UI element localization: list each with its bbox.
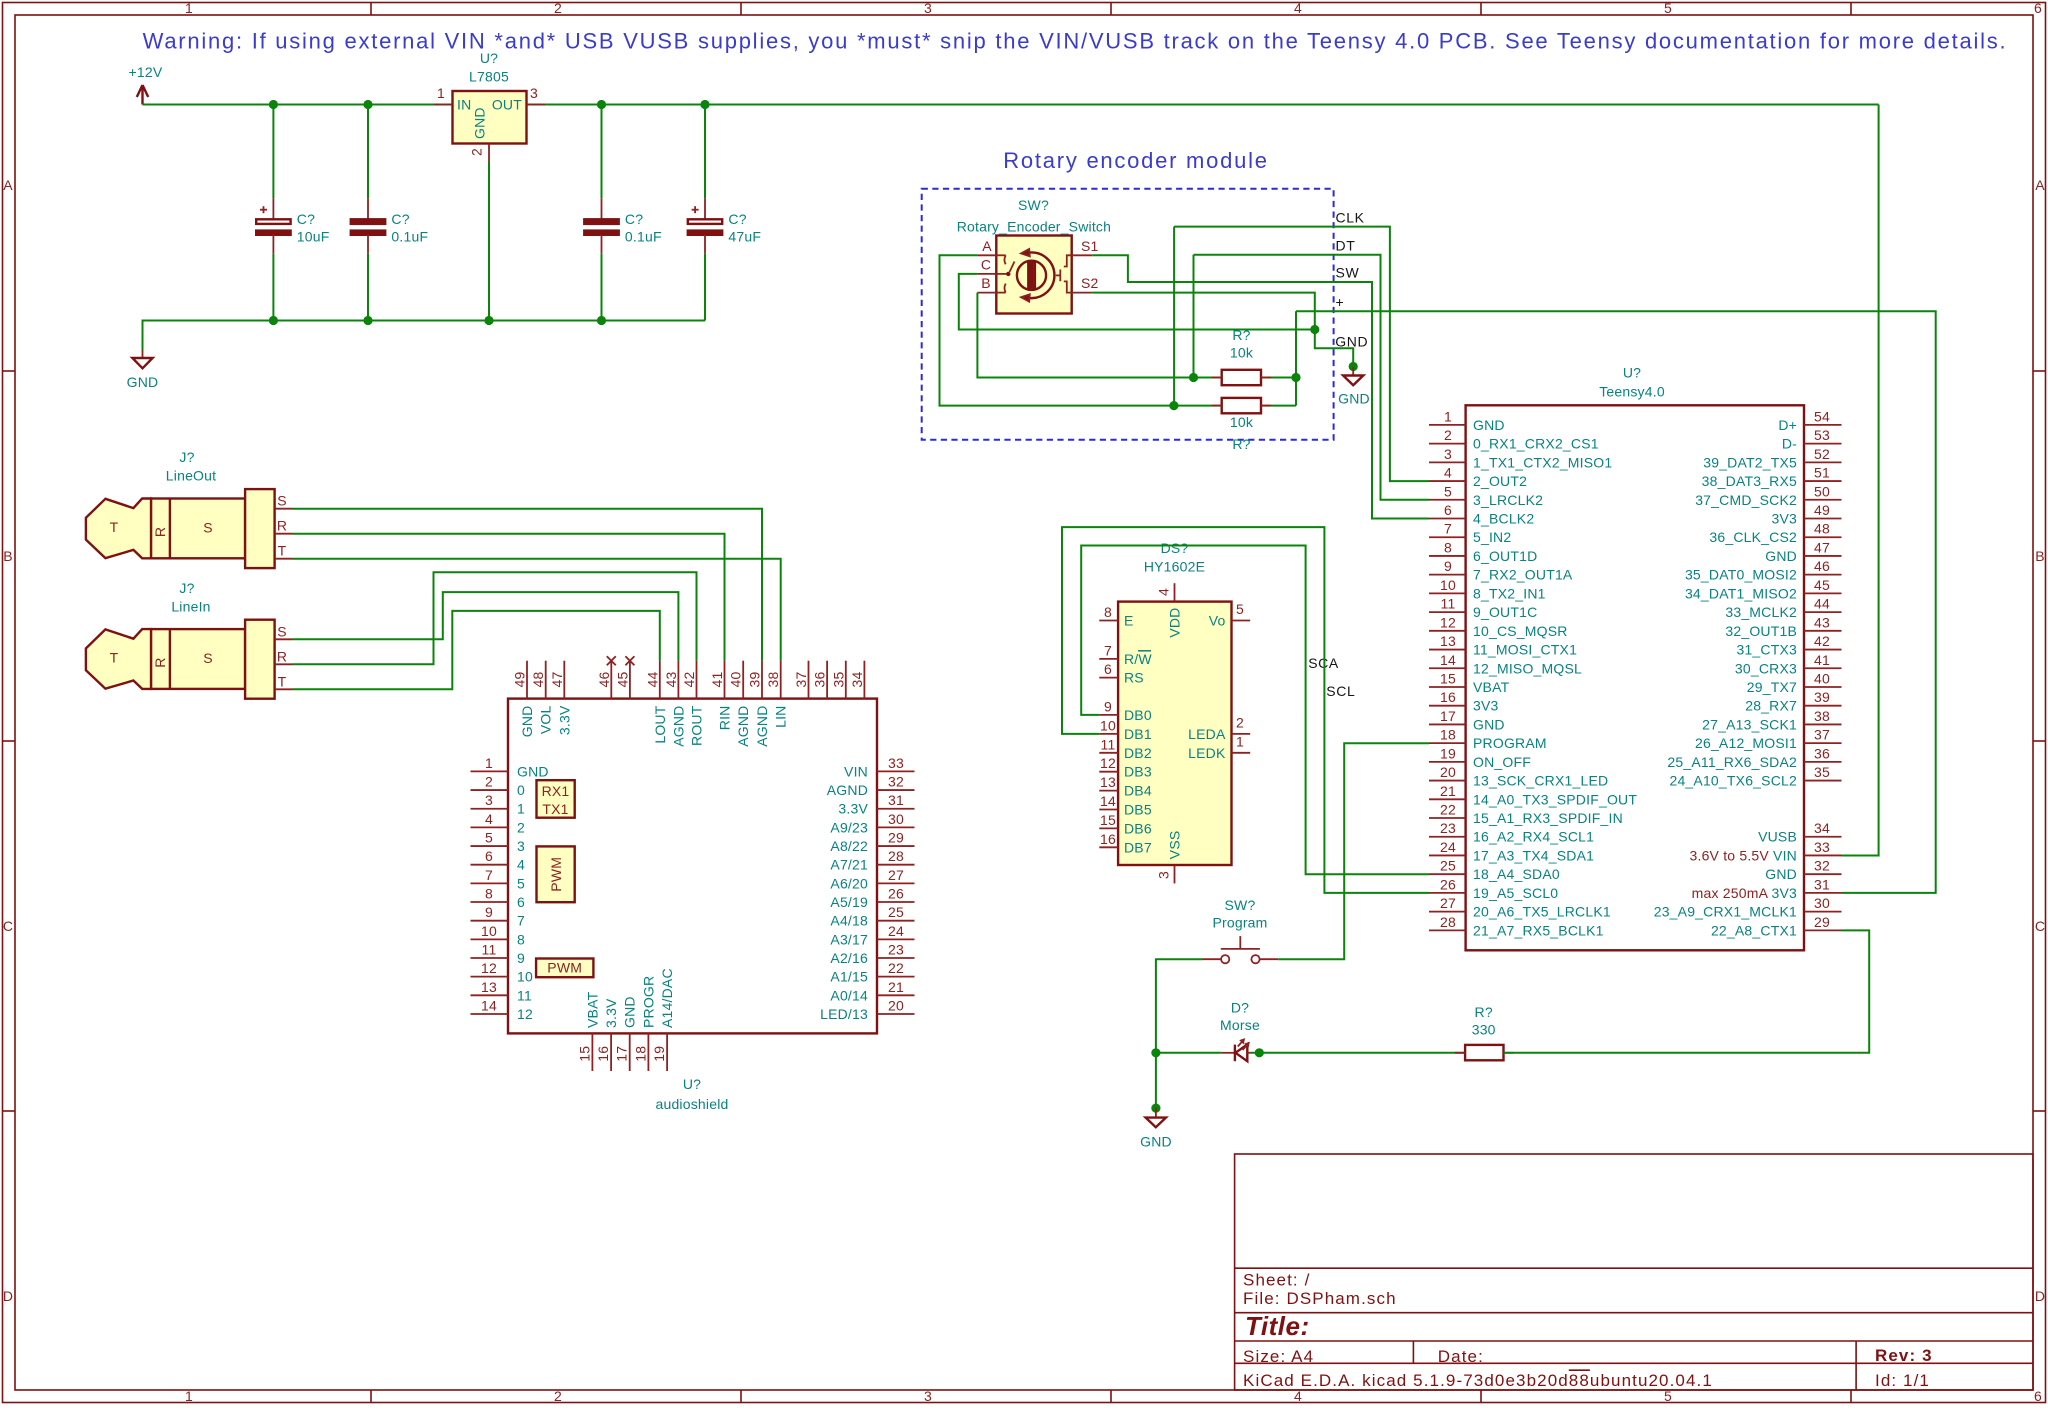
svg-text:2: 2 [485,774,493,790]
svg-text:12: 12 [1100,755,1116,771]
svg-text:16: 16 [1100,831,1116,847]
pin 4 2 of audioshield [471,826,509,828]
svg-text:GND: GND [1473,716,1505,732]
pin 1 GND of Teensy4.0 [1429,424,1466,426]
svg-text:DB4: DB4 [1124,783,1152,799]
svg-text:3.3V: 3.3V [556,705,572,735]
svg-text:DB2: DB2 [1124,745,1152,761]
pin 47 GND of Teensy4.0 [1804,555,1842,557]
title block frame [1235,1154,2033,1390]
svg-text:41: 41 [1814,652,1830,668]
svg-text:4: 4 [485,811,493,827]
pin A of rotary encoder [977,254,996,256]
svg-text:17: 17 [1440,708,1456,724]
svg-text:+: + [1336,294,1345,310]
svg-text:A14/DAC: A14/DAC [659,968,675,1028]
svg-text:8: 8 [517,931,525,947]
svg-text:50: 50 [1814,483,1830,499]
svg-text:22_A8_CTX1: 22_A8_CTX1 [1711,922,1797,938]
wire LineOut S to audioshield pin 39 [293,509,763,661]
svg-text:9: 9 [485,904,493,920]
pin 11 9 of audioshield [471,957,509,959]
svg-text:21: 21 [1440,783,1456,799]
junction dots on +12V rail [269,100,278,109]
svg-text:T: T [278,543,287,559]
pin 20 13_SCK_CRX1_LED of Teensy4.0 [1429,780,1466,782]
pin R of J? LineOut [275,533,293,535]
svg-text:Rev: 3: Rev: 3 [1875,1346,1933,1365]
svg-text:U?: U? [683,1076,701,1092]
svg-text:1: 1 [437,85,445,101]
svg-text:51: 51 [1814,465,1830,481]
no-connect x pin 45 [625,656,634,665]
pin 38 27_A13_SCK1 of Teensy4.0 [1804,723,1842,725]
pin 3 VSS of HY1602E [1174,865,1176,883]
resistor R? 330 [1455,1004,1514,1060]
wire switch to GND branch [1156,959,1203,1053]
svg-text:20: 20 [888,997,904,1013]
pin 41 30_CRX3 of Teensy4.0 [1804,667,1842,669]
pin 36 25_A11_RX6_SDA2 of Teensy4.0 [1804,761,1842,763]
svg-text:23_A9_CRX1_MCLK1: 23_A9_CRX1_MCLK1 [1654,904,1797,920]
svg-text:GND: GND [1338,391,1370,407]
svg-text:7_RX2_OUT1A: 7_RX2_OUT1A [1473,567,1573,583]
pin 33 VIN of audioshield [877,770,915,772]
svg-text:Warning: If using external VIN: Warning: If using external VIN *and* USB… [143,29,2008,54]
svg-text:S: S [277,493,287,509]
pin 47 3.3V top of audioshield [563,661,565,699]
svg-text:3: 3 [1156,871,1172,879]
svg-text:31_CTX3: 31_CTX3 [1736,642,1797,658]
wire DB0 to SCA to Teensy pin 25 [1081,546,1429,875]
pin 16 3V3 of Teensy4.0 [1429,705,1466,707]
pin 28 A7/21 of audioshield [877,864,915,866]
pin 32 AGND of audioshield [877,789,915,791]
svg-text:45: 45 [1814,577,1830,593]
pin 30 A9/23 of audioshield [877,826,915,828]
svg-text:KiCad E.D.A. kicad 5.1.9-73d0: KiCad E.D.A. kicad 5.1.9-73d0e3b20d88ubu… [1243,1371,1713,1390]
wire L7805 GND to rail [488,162,490,321]
svg-text:D+: D+ [1778,417,1797,433]
pin 13 DB4 of HY1602E [1099,790,1118,792]
svg-text:RS: RS [1124,670,1144,686]
svg-text:10: 10 [517,969,533,985]
ground symbol morse branch [1151,1104,1160,1113]
svg-text:11: 11 [517,987,532,1003]
svg-text:3: 3 [530,85,538,101]
svg-text:VSS: VSS [1167,831,1183,860]
pin 9 7_RX2_OUT1A of Teensy4.0 [1429,574,1466,576]
svg-text:VIN: VIN [844,763,868,779]
pin 17 GND bottom of audioshield [629,1033,631,1071]
svg-text:DB7: DB7 [1124,839,1152,855]
pin 27 20_A6_TX5_LRCLK1 of Teensy4.0 [1429,911,1466,913]
pin 36 top of audioshield [826,661,828,699]
wire CLK riser [1173,227,1175,406]
title block row lines [1235,1267,2033,1269]
pin 3 1 of audioshield [471,808,509,810]
pin 2 0_RX1_CRX2_CS1 of Teensy4.0 [1429,443,1466,445]
svg-text:32: 32 [1814,858,1830,874]
svg-text:J?: J? [179,580,194,596]
overline on 88 [1569,1369,1590,1371]
svg-text:DB0: DB0 [1124,707,1152,723]
svg-text:C: C [2035,918,2045,934]
svg-text:GND: GND [622,996,638,1028]
svg-text:VUSB: VUSB [1758,829,1797,845]
ic U? audioshield body [508,699,877,1034]
capacitor C? 0.1uF [584,105,661,321]
svg-text:29: 29 [1814,914,1830,930]
svg-text:36: 36 [1814,745,1830,761]
svg-text:RIN: RIN [717,706,733,731]
svg-text:28: 28 [888,848,904,864]
pin 23 A2/16 of audioshield [877,957,915,959]
svg-text:14: 14 [481,997,497,1013]
svg-text:47: 47 [549,672,565,688]
svg-text:4_BCLK2: 4_BCLK2 [1473,511,1534,527]
pin 1 LEDK of HY1602E [1232,752,1251,754]
svg-text:A8/22: A8/22 [830,838,868,854]
rotary encoder switch SW? Rotary_Encoder_Switch [957,197,1111,314]
svg-text:9: 9 [1444,558,1452,574]
pin 6 4 of audioshield [471,864,509,866]
pin 17 GND of Teensy4.0 [1429,723,1466,725]
wire resistor 330 to Teensy pin 29 [1504,930,1870,1052]
svg-text:31: 31 [888,792,904,808]
svg-text:2: 2 [517,819,525,835]
svg-text:18: 18 [632,1046,648,1062]
svg-text:10_CS_MQSR: 10_CS_MQSR [1473,623,1568,639]
svg-text:25: 25 [888,904,904,920]
pin 46 35_DAT0_MOSI2 of Teensy4.0 [1804,574,1842,576]
svg-text:13: 13 [1440,633,1456,649]
wire CLK to Teensy pin 4 [1174,227,1429,482]
capacitor C? 10uF [256,105,329,321]
svg-text:9_OUT1C: 9_OUT1C [1473,604,1537,620]
svg-text:48: 48 [1814,521,1830,537]
pin 9 DB0 of HY1602E [1099,714,1118,716]
wire LineOut R to audioshield pin 41 [293,534,725,661]
svg-text:6: 6 [1444,502,1452,518]
svg-text:DB1: DB1 [1124,726,1152,742]
pin 45 34_DAT1_MISO2 of Teensy4.0 [1804,592,1842,594]
svg-text:37_CMD_SCK2: 37_CMD_SCK2 [1695,492,1797,508]
svg-text:LineOut: LineOut [166,468,216,484]
svg-text:5: 5 [485,830,493,846]
pin 32 GND of Teensy4.0 [1804,873,1842,875]
svg-text:GND: GND [1765,866,1797,882]
svg-text:U?: U? [480,50,498,66]
svg-text:53: 53 [1814,427,1830,443]
svg-text:2_OUT2: 2_OUT2 [1473,473,1527,489]
svg-text:8_TX2_IN1: 8_TX2_IN1 [1473,585,1546,601]
pin 38 LIN top of audioshield [780,661,782,699]
svg-text:16_A2_RX4_SCL1: 16_A2_RX4_SCL1 [1473,829,1594,845]
svg-text:DS?: DS? [1161,540,1189,556]
svg-text:330: 330 [1472,1022,1496,1038]
pin 48 VOL top of audioshield [545,661,547,699]
svg-text:9: 9 [517,950,525,966]
pin 51 38_DAT3_RX5 of Teensy4.0 [1804,480,1842,482]
svg-text:27_A13_SCK1: 27_A13_SCK1 [1702,716,1797,732]
svg-text:IN: IN [457,97,471,113]
connector J? LineOut jack [86,449,275,568]
pin 2 of program switch [1259,958,1278,960]
wire pullup common to + rail [1295,311,1297,405]
svg-text:13: 13 [1100,774,1116,790]
svg-text:4: 4 [517,857,525,873]
svg-text:14: 14 [1440,652,1456,668]
svg-text:B: B [2035,548,2045,564]
pin 5 3 of audioshield [471,845,509,847]
dashed outline rotary encoder module [922,189,1334,440]
pin 24 17_A3_TX4_SDA1 of Teensy4.0 [1429,854,1466,856]
svg-text:8: 8 [1104,604,1112,620]
svg-text:15_A1_RX3_SPDIF_IN: 15_A1_RX3_SPDIF_IN [1473,810,1623,826]
svg-text:File: DSPham.sch: File: DSPham.sch [1243,1289,1397,1308]
wire +12V top rail [143,104,1879,106]
svg-text:S2: S2 [1081,275,1099,291]
wire GND to LED anode [1155,1053,1157,1108]
svg-text:VBAT: VBAT [584,991,600,1028]
svg-text:12: 12 [517,1006,533,1022]
svg-text:A: A [2035,177,2045,193]
svg-text:D: D [2035,1288,2045,1304]
svg-text:41: 41 [709,672,725,688]
svg-text:4: 4 [1156,588,1172,596]
svg-text:OUT: OUT [492,97,522,113]
svg-text:1: 1 [485,755,493,771]
wire encoder GND tail [1315,330,1353,368]
pwm box RX1 TX1 [537,780,575,818]
svg-text:38: 38 [765,672,781,688]
svg-text:PROGRAM: PROGRAM [1473,735,1547,751]
svg-text:2: 2 [554,1388,562,1404]
svg-text:Teensy4.0: Teensy4.0 [1599,384,1665,400]
svg-text:7: 7 [1444,521,1452,537]
pin 8 6_OUT1D of Teensy4.0 [1429,555,1466,557]
svg-text:A: A [982,238,992,254]
svg-text:7: 7 [1104,642,1112,658]
pin 5 3_LRCLK2 of Teensy4.0 [1429,499,1466,501]
svg-text:3.3V: 3.3V [603,998,619,1028]
svg-text:D-: D- [1782,436,1797,452]
svg-text:3.3V: 3.3V [838,801,868,817]
power flag +12V [141,88,143,105]
svg-text:C?: C? [297,211,315,227]
resistor R? 10k upper [1194,370,1297,385]
svg-text:GND: GND [517,763,549,779]
svg-text:R: R [152,527,168,537]
svg-text:22: 22 [888,960,904,976]
pin 15 VBAT of Teensy4.0 [1429,686,1466,688]
pin 18 PROGR bottom of audioshield [647,1033,649,1071]
pin 26 A5/19 of audioshield [877,901,915,903]
pin 12 10_CS_MQSR of Teensy4.0 [1429,630,1466,632]
svg-text:14_A0_TX3_SPDIF_OUT: 14_A0_TX3_SPDIF_OUT [1473,791,1637,807]
svg-text:S: S [277,623,287,639]
svg-text:5: 5 [1444,483,1452,499]
svg-text:A5/19: A5/19 [830,894,868,910]
wire VIN drop to Teensy pin 33 [1842,105,1879,856]
pin 40 29_TX7 of Teensy4.0 [1804,686,1842,688]
svg-text:35: 35 [830,672,846,688]
svg-text:2: 2 [554,0,562,16]
svg-text:D?: D? [1231,1000,1249,1016]
svg-text:44: 44 [644,672,660,688]
svg-text:34: 34 [849,672,865,688]
pin 19 A14/DAC bottom of audioshield [666,1033,668,1071]
svg-text:46: 46 [1814,558,1830,574]
pin T of J? LineOut [275,558,293,560]
svg-text:LEDA: LEDA [1188,726,1226,742]
svg-text:GND: GND [1335,334,1368,350]
pin 3 1_TX1_CTX2_MISO1 of Teensy4.0 [1429,461,1466,463]
pin 21 A0/14 of audioshield [877,994,915,996]
pin 45 top of audioshield [629,661,631,699]
svg-text:SW?: SW? [1225,897,1256,913]
svg-text:48: 48 [530,672,546,688]
svg-text:LED/13: LED/13 [820,1006,868,1022]
svg-text:49: 49 [512,672,528,688]
pin 46 top of audioshield [610,661,612,699]
pin 7 5 of audioshield [471,882,509,884]
pin 5 Vo of HY1602E [1232,620,1251,622]
pin 22 A1/15 of audioshield [877,976,915,978]
svg-text:18: 18 [1440,727,1456,743]
svg-text:8: 8 [485,886,493,902]
svg-text:Morse: Morse [1220,1017,1260,1033]
pin S2 of rotary encoder [1072,292,1093,294]
svg-text:13: 13 [481,979,497,995]
svg-text:LineIn: LineIn [171,598,210,614]
pin 7 5_IN2 of Teensy4.0 [1429,536,1466,538]
pin 31 3V3 of Teensy4.0 [1804,892,1842,894]
pin 35 24_A10_TX6_SCL2 of Teensy4.0 [1804,780,1842,782]
svg-text:6: 6 [485,848,493,864]
svg-text:PWM: PWM [548,857,564,892]
pin 13 11 of audioshield [471,994,509,996]
svg-text:A2/16: A2/16 [830,950,868,966]
pin 1 GND of audioshield [471,770,509,772]
svg-text:52: 52 [1814,446,1830,462]
svg-text:44: 44 [1814,596,1830,612]
svg-text:LOUT: LOUT [652,705,668,743]
svg-text:HY1602E: HY1602E [1144,559,1205,575]
pin S of J? LineIn [275,638,293,640]
border column ticks [370,3,372,16]
svg-text:A0/14: A0/14 [830,987,868,1003]
pin T of J? LineIn [275,688,293,690]
svg-text:10: 10 [481,923,497,939]
pin 39 28_RX7 of Teensy4.0 [1804,705,1842,707]
svg-text:GND: GND [472,107,488,139]
svg-text:R?: R? [1232,436,1250,452]
svg-text:12_MISO_MQSL: 12_MISO_MQSL [1473,660,1582,676]
svg-text:A9/23: A9/23 [830,819,868,835]
pin 14 12_MISO_MQSL of Teensy4.0 [1429,667,1466,669]
svg-text:27: 27 [888,867,904,883]
svg-text:3: 3 [1444,446,1452,462]
svg-text:C?: C? [391,211,409,227]
wire GND bottom rail [143,321,706,351]
svg-text:GND: GND [1473,417,1505,433]
svg-text:8: 8 [1444,539,1452,555]
pin 49 3V3 of Teensy4.0 [1804,518,1842,520]
pin 26 19_A5_SCL0 of Teensy4.0 [1429,892,1466,894]
svg-text:10k: 10k [1230,414,1254,430]
svg-text:5_IN2: 5_IN2 [1473,529,1511,545]
pin S of J? LineOut [275,508,293,510]
svg-text:VDD: VDD [1167,608,1183,638]
svg-text:3: 3 [517,838,525,854]
svg-text:32_OUT1B: 32_OUT1B [1725,623,1797,639]
svg-text:33_MCLK2: 33_MCLK2 [1725,604,1797,620]
pin 15 VBAT bottom of audioshield [591,1033,593,1071]
pin 31 3.3V of audioshield [877,808,915,810]
svg-text:RX1: RX1 [542,783,570,799]
svg-text:39: 39 [747,672,763,688]
svg-text:21: 21 [888,979,904,995]
pin 4 2_OUT2 of Teensy4.0 [1429,480,1466,482]
led D? Morse [1156,1000,1260,1062]
ground symbol main supply [142,350,144,358]
svg-text:46: 46 [596,672,612,688]
svg-text:16: 16 [595,1046,611,1062]
connector J? LineIn jack [86,580,275,699]
svg-text:30: 30 [888,811,904,827]
svg-text:24_A10_TX6_SCL2: 24_A10_TX6_SCL2 [1669,773,1797,789]
svg-text:4: 4 [1444,465,1452,481]
pin 42 ROUT top of audioshield [696,661,698,699]
svg-text:10: 10 [1100,717,1116,733]
svg-text:17: 17 [614,1046,630,1062]
pin 52 39_DAT2_TX5 of Teensy4.0 [1804,461,1842,463]
pin 8 E of HY1602E [1099,620,1118,622]
svg-text:E: E [1124,613,1134,629]
pwm box horizontal [536,959,593,978]
svg-text:25: 25 [1440,858,1456,874]
svg-text:26_A12_MOSI1: 26_A12_MOSI1 [1695,735,1797,751]
ic DS? HY1602E body [1118,602,1231,865]
pin 42 31_CTX3 of Teensy4.0 [1804,649,1842,651]
svg-text:9: 9 [1104,698,1112,714]
svg-text:VOL: VOL [538,705,554,734]
svg-text:26: 26 [888,886,904,902]
svg-text:GND: GND [1140,1134,1172,1150]
voltage regulator U? L7805 [453,50,527,144]
svg-text:A7/21: A7/21 [830,857,868,873]
wire LineIn T to audioshield pin 44 [293,611,660,689]
svg-text:35: 35 [1814,764,1830,780]
svg-text:R: R [277,648,287,664]
svg-text:ON_OFF: ON_OFF [1473,754,1531,770]
svg-text:10: 10 [1440,577,1456,593]
svg-text:B: B [981,275,991,291]
svg-text:18_A4_SDA0: 18_A4_SDA0 [1473,866,1560,882]
svg-text:12: 12 [481,960,497,976]
pin 48 36_CLK_CS2 of Teensy4.0 [1804,536,1842,538]
pin 29 A8/22 of audioshield [877,845,915,847]
svg-text:4: 4 [1294,0,1302,16]
pin 37 top of audioshield [808,661,810,699]
junction dot LED line left [1151,1048,1160,1057]
svg-text:5: 5 [517,875,525,891]
pin 23 16_A2_RX4_SCL1 of Teensy4.0 [1429,836,1466,838]
svg-text:1: 1 [1236,734,1244,750]
pin 19 ON_OFF of Teensy4.0 [1429,761,1466,763]
